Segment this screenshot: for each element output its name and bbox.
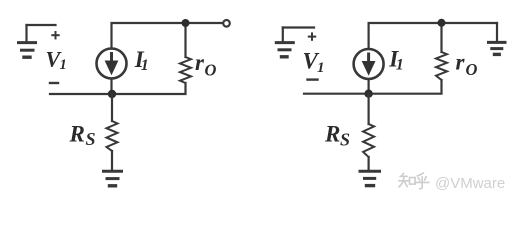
svg-text:@VMware: @VMware — [435, 175, 505, 192]
label RS (right circuit) — [324, 122, 350, 150]
svg-text:R: R — [324, 122, 340, 147]
wire (ground to V1 plus terminal, left circuit) — [27, 24, 56, 26]
resistor rO (right circuit) — [436, 52, 447, 80]
node junction dot (bottom rail, left circuit) — [108, 90, 116, 98]
svg-text:R: R — [69, 122, 85, 147]
wire (top rail to rO, right circuit) — [440, 23, 442, 52]
bottom rail wire (right circuit) — [304, 80, 442, 94]
label rO (right circuit) — [456, 50, 478, 80]
label V1 (left circuit) — [46, 47, 67, 74]
label rO (left circuit) — [195, 50, 217, 80]
wire (RS bottom lead, right circuit) — [368, 157, 370, 170]
label minus (V1 minus, left circuit) — [50, 82, 58, 84]
svg-text:O: O — [466, 60, 478, 79]
wire (current source bottom lead, right circuit) — [368, 79, 370, 94]
label + (V1 plus, left circuit) — [52, 32, 58, 38]
label RS (left circuit) — [69, 122, 96, 150]
svg-text:1: 1 — [60, 57, 67, 73]
ground (bottom, left circuit) — [104, 171, 122, 186]
watermark 知 glyph — [399, 173, 415, 187]
label I1 (right circuit) — [388, 47, 404, 74]
svg-text:S: S — [86, 129, 96, 149]
wire (junction to RS, left circuit) — [111, 94, 113, 121]
current source I1 (left circuit) — [97, 49, 127, 79]
ground (top-left, left circuit) — [19, 25, 36, 57]
wire (junction to RS, right circuit) — [368, 94, 370, 124]
node junction dot (bottom rail, right circuit) — [364, 90, 372, 98]
top rail wire (right circuit) — [369, 23, 497, 49]
wire (top rail to rO, left circuit) — [184, 23, 186, 57]
svg-text:r: r — [456, 50, 466, 75]
resistor RS (right circuit) — [363, 124, 374, 157]
ground (top-right, right circuit) — [489, 23, 506, 54]
svg-text:1: 1 — [396, 57, 404, 74]
top rail wire (left circuit) — [112, 23, 223, 49]
resistor RS (left circuit) — [107, 121, 118, 151]
svg-text:1: 1 — [317, 60, 325, 76]
label V1 (right circuit) — [303, 49, 325, 77]
svg-text:S: S — [340, 130, 350, 150]
resistor rO (left circuit) — [180, 57, 191, 83]
svg-text:1: 1 — [141, 57, 149, 74]
wire (ground to V1 plus terminal, right circuit) — [283, 26, 314, 28]
node junction dot (top rail, left circuit) — [182, 19, 190, 27]
wire (current source bottom lead, left circuit) — [110, 79, 112, 95]
terminal (open output, left circuit) — [223, 20, 230, 27]
label I1 (left circuit) — [134, 47, 149, 74]
watermark 乎 glyph — [415, 173, 429, 189]
ground (top-left, right circuit) — [276, 28, 293, 57]
current source I1 (right circuit) — [354, 49, 384, 79]
label minus (V1 minus, right circuit) — [308, 78, 318, 80]
ground (bottom, right circuit) — [360, 171, 380, 185]
label + (V1 plus, right circuit) — [309, 33, 315, 39]
wire (RS bottom lead, left circuit) — [111, 151, 113, 170]
bottom rail wire (left circuit) — [50, 83, 186, 94]
svg-text:O: O — [205, 61, 217, 80]
node junction dot (top rail, right circuit) — [438, 19, 446, 27]
svg-text:r: r — [195, 50, 205, 75]
